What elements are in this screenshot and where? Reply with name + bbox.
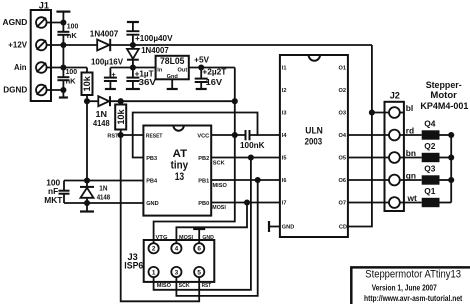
resistor R2 10k pullup (115, 101, 126, 135)
wire clamp X down to PB4 node (86, 101, 88, 180)
wire clamp rail to +5V (110, 100, 235, 102)
coil Q3 (400, 163, 451, 184)
supply bar 100u40V (127, 22, 139, 31)
ground ULN GND (269, 221, 280, 232)
svg-text:ISP6: ISP6 (124, 261, 143, 271)
svg-text:4: 4 (175, 246, 179, 253)
svg-text:Q2: Q2 (424, 141, 436, 151)
svg-text:ULN: ULN (305, 125, 323, 136)
wire O4 to rd (348, 134, 389, 136)
svg-text:5: 5 (197, 269, 201, 276)
node +5V x clamp rail (232, 98, 238, 104)
wire D1 to +12V rail (110, 44, 372, 46)
ground ISP6 bar (193, 229, 205, 243)
svg-text:+12V: +12V (8, 39, 27, 49)
svg-text:SCK: SCK (213, 160, 225, 166)
svg-text:bn: bn (406, 148, 416, 158)
wire +5V drop to VTG (154, 68, 235, 244)
svg-text:VCC: VCC (197, 133, 209, 139)
supply rail bar at AGND column (56, 12, 70, 32)
wire MOSI to ISP4 (176, 203, 247, 244)
ground C4 (105, 88, 116, 90)
svg-text:GND: GND (202, 235, 214, 241)
node GND (84, 200, 90, 206)
svg-text:I7: I7 (282, 201, 287, 207)
svg-text:rd: rd (406, 125, 414, 135)
svg-text:RESET: RESET (146, 133, 163, 139)
capacitor C5 1uT 36V (126, 68, 156, 90)
diode D2 1N4007 vertical (127, 45, 169, 68)
wire clamp rail left (87, 100, 98, 102)
svg-text:Motor: Motor (430, 90, 457, 101)
svg-text:Out: Out (178, 67, 188, 73)
ISP pin 1 MISO (149, 267, 172, 289)
wire VCC (211, 134, 245, 136)
wire GND row (64, 202, 143, 204)
connector J2 (385, 90, 404, 211)
ground 78L05 (167, 79, 178, 89)
svg-text:In: In (157, 67, 163, 73)
svg-text:wt: wt (407, 193, 418, 203)
node PB4 (84, 177, 90, 183)
ground C5 (126, 88, 140, 90)
capacitor C1 100nK (57, 21, 78, 45)
svg-text:O1: O1 (339, 66, 346, 72)
J2 pin wt (389, 197, 400, 208)
J2 pin bl (389, 107, 400, 118)
diode D4 1N4148 vertical (80, 181, 110, 204)
node AGND (60, 19, 66, 25)
node +5V (198, 64, 204, 70)
connector J3 ISP6 (124, 240, 214, 282)
node clamp X (84, 98, 90, 104)
diode D1 1N4007 (90, 29, 119, 52)
svg-text:MISO: MISO (213, 183, 228, 189)
J2 pin rd (389, 130, 400, 141)
svg-text:PB3: PB3 (146, 156, 157, 162)
ISP pin 3 SCK (171, 267, 189, 289)
svg-text:AGND: AGND (3, 17, 28, 27)
capacitor C7 100nF MKT (44, 177, 69, 205)
capacitor C6 2u2T 16V (195, 66, 228, 89)
node Q4 common (448, 132, 454, 138)
svg-text:I5: I5 (282, 156, 287, 162)
connector J1 (31, 1, 51, 101)
svg-text:MOSI: MOSI (179, 235, 193, 241)
coil Q4 (400, 118, 451, 139)
svg-text:36V: 36V (139, 77, 157, 87)
title block (351, 267, 470, 304)
ground C6 (196, 88, 207, 90)
svg-text:3: 3 (175, 269, 179, 276)
wire MISO riser to ISP3 (176, 180, 257, 296)
svg-text:tiny: tiny (171, 160, 189, 172)
node DGND (60, 87, 66, 93)
node MISO (255, 177, 261, 183)
J2 pin bn (389, 152, 400, 163)
wire O7 to wt (348, 202, 389, 204)
svg-text:Version 1, June 2007: Version 1, June 2007 (372, 283, 438, 292)
svg-text:1N: 1N (99, 184, 107, 193)
svg-text:2003: 2003 (305, 137, 323, 148)
svg-text:O6: O6 (339, 178, 346, 184)
svg-text:nK: nK (67, 31, 78, 40)
svg-text:+5V: +5V (194, 55, 209, 65)
svg-text:RST: RST (202, 283, 212, 289)
svg-text:Steppermotor ATtiny13: Steppermotor ATtiny13 (365, 268, 461, 280)
wire DGND pin (47, 89, 64, 91)
wire O5 to bn (348, 157, 389, 159)
svg-text:PB0: PB0 (198, 201, 209, 207)
ground MCU (80, 203, 94, 212)
wire In line (110, 67, 155, 69)
svg-text:DGND: DGND (3, 84, 27, 94)
IC U1 ATtiny13 (143, 126, 211, 216)
svg-text:6: 6 (197, 246, 201, 253)
svg-text:I6: I6 (282, 178, 287, 184)
node SCK (248, 154, 254, 160)
svg-text:100: 100 (66, 67, 78, 76)
svg-text:4148: 4148 (93, 118, 110, 128)
ground DGND (59, 90, 68, 98)
svg-text:MISO: MISO (157, 283, 172, 289)
node pullup top (118, 98, 124, 104)
wire Ain pin (47, 67, 87, 69)
J1 pin 2 +12V terminal (8, 39, 46, 50)
capacitor C3 100u40V electrolytic (126, 31, 172, 45)
wire RESET down to ISP5 (121, 135, 200, 301)
wire coil common rail (450, 135, 452, 203)
svg-text:O5: O5 (339, 156, 346, 162)
ISP pin 5 RST (194, 267, 211, 289)
node Q3 common (448, 177, 454, 183)
node +12V (60, 42, 66, 48)
svg-text:1N4007: 1N4007 (90, 29, 119, 39)
svg-text:10k: 10k (82, 75, 92, 91)
svg-text:I3: I3 (282, 111, 287, 117)
node Ain (60, 64, 66, 70)
diode D3 1N4148 (93, 96, 110, 128)
svg-text:http://www.avr-asm-tutorial.ne: http://www.avr-asm-tutorial.net (364, 294, 463, 303)
svg-text:I1: I1 (282, 66, 287, 72)
wire PB3 to I4 (133, 113, 280, 158)
svg-text:Q3: Q3 (424, 163, 436, 173)
wire O6 to gn (348, 179, 389, 181)
coil Q2 (400, 141, 451, 162)
regulator U2 78L05 (156, 56, 189, 80)
wire +12V pin to rail (47, 44, 98, 46)
svg-text:100nK: 100nK (240, 140, 265, 150)
svg-text:100: 100 (67, 21, 79, 30)
wire AGND pin to column (47, 22, 64, 24)
svg-text:+100µ40V: +100µ40V (135, 33, 173, 43)
svg-text:gn: gn (406, 170, 416, 180)
wire bl (372, 112, 389, 114)
node MOSI (244, 199, 250, 205)
capacitor C8 100nK (240, 130, 265, 150)
svg-text:78L05: 78L05 (160, 56, 185, 66)
wire PB0 to I7 (211, 202, 280, 204)
node Q2 common (448, 154, 454, 160)
svg-text:+2µ2T: +2µ2T (202, 66, 227, 76)
wire Out +5V (189, 67, 235, 69)
svg-text:J1: J1 (39, 1, 49, 11)
svg-text:10k: 10k (116, 108, 126, 124)
node at C3 top (130, 42, 136, 48)
svg-text:CD: CD (339, 225, 347, 231)
J1 pin 1 AGND terminal (3, 17, 47, 28)
wire PB2 to I5 (211, 157, 280, 159)
motor label (420, 80, 469, 112)
svg-text:O4: O4 (339, 133, 347, 139)
svg-text:4148: 4148 (97, 193, 111, 202)
svg-text:Gnd: Gnd (167, 74, 179, 80)
svg-text:PB1: PB1 (198, 178, 209, 184)
svg-text:Q1: Q1 (424, 186, 436, 196)
svg-text:O3: O3 (339, 111, 346, 117)
node bl (369, 109, 375, 115)
svg-text:Q4: Q4 (424, 118, 436, 128)
resistor R1 10k (82, 68, 93, 102)
svg-text:PB4: PB4 (146, 178, 158, 184)
node VCC (232, 132, 238, 138)
svg-text:1: 1 (152, 269, 156, 276)
svg-text:2: 2 (152, 246, 156, 253)
IC U3 ULN2003 (280, 55, 348, 237)
svg-text:Ain: Ain (14, 62, 27, 72)
wire RESET to MCU (121, 134, 144, 136)
ISP pin 6 GND (194, 235, 214, 254)
svg-text:RST: RST (107, 134, 119, 140)
svg-text:bl: bl (406, 103, 413, 113)
node RESET (118, 132, 124, 138)
svg-text:J2: J2 (390, 90, 400, 100)
svg-text:VTG: VTG (156, 235, 168, 241)
svg-text:O2: O2 (339, 88, 346, 94)
svg-text:nK: nK (66, 77, 77, 86)
svg-text:16V: 16V (206, 77, 223, 87)
svg-text:MKT: MKT (44, 195, 63, 205)
coil Q1 (400, 186, 451, 207)
svg-text:SCK: SCK (179, 283, 190, 289)
svg-text:13: 13 (175, 171, 185, 183)
svg-text:100µ16V: 100µ16V (91, 57, 123, 67)
svg-text:1N4007: 1N4007 (141, 45, 169, 55)
svg-text:KP4M4-001: KP4M4-001 (420, 101, 469, 112)
node In (130, 64, 136, 70)
J1 pin 3 Ain terminal (14, 62, 47, 73)
capacitor C2 100nK (57, 67, 77, 90)
svg-text:AT: AT (173, 148, 188, 160)
svg-text:MOSI: MOSI (212, 205, 226, 211)
ISP pin 2 VTG (149, 235, 168, 254)
capacitor C4 100u16V electrolytic (91, 57, 123, 89)
svg-text:O7: O7 (339, 201, 346, 207)
wire column down (62, 45, 64, 77)
svg-text:GND: GND (282, 225, 294, 231)
ISP pin 4 MOSI (171, 235, 193, 254)
svg-text:GND: GND (146, 201, 158, 207)
svg-text:PB2: PB2 (198, 156, 209, 162)
wire PB4 row (64, 180, 143, 182)
J1 pin 4 DGND terminal (3, 84, 46, 95)
svg-text:I2: I2 (282, 88, 287, 94)
wire +12V drop to CD (348, 45, 372, 227)
J2 pin gn (389, 175, 400, 186)
wire SCK riser to ISP1 (154, 158, 251, 290)
wire PB1 to I6 (211, 179, 280, 181)
